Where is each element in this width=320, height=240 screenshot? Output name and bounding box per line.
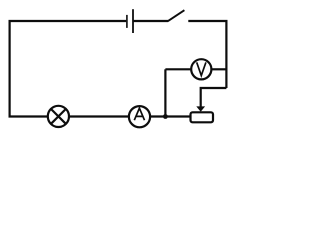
wire switch right contact to top-right corner + right rail [188,21,226,88]
junction node dot [163,114,168,119]
wire lamp to ammeter [69,115,130,117]
wire ammeter to rheostat left terminal [150,115,190,117]
lamp L1 cross [51,109,66,124]
rheostat wiper arrowhead [196,106,205,111]
battery B1 short plate (negative) [126,15,128,28]
wire voltmeter branch vertical [164,69,166,116]
ammeter label A [134,108,144,120]
rheostat R1 body [191,112,214,122]
wire battery to switch pivot [133,20,168,22]
switch S1 lever (open) [168,10,185,21]
wire rail jog to rheostat wiper [201,88,227,107]
lamp L1 circle [48,106,69,127]
battery B1 long plate (positive) [132,9,134,33]
voltmeter V1 circle [191,59,211,79]
wire voltmeter branch horizontal [165,68,191,70]
ammeter A1 circle [129,106,150,127]
voltmeter label V [197,62,206,75]
wire voltmeter to right rail [211,68,226,70]
wire top-left + left rail + bottom wire to lamp [10,21,127,117]
